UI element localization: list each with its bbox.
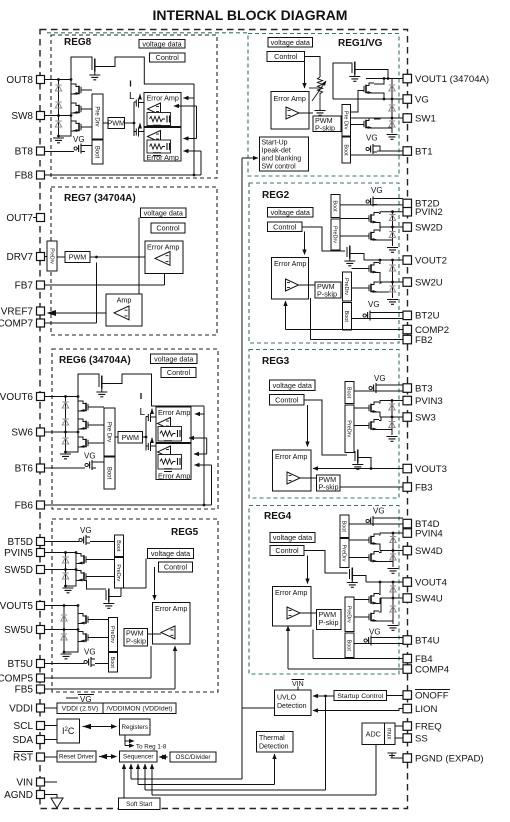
svg-text:mux: mux bbox=[386, 728, 392, 739]
svg-text:VOUT5: VOUT5 bbox=[0, 601, 33, 612]
wire SCL bbox=[45, 725, 58, 727]
REG3 switch FET 1 bbox=[371, 402, 379, 412]
REG7 block outline bbox=[51, 187, 217, 335]
wire F4 source to chain REG2 bbox=[379, 291, 393, 293]
REG3 cluster ground bbox=[387, 437, 398, 442]
pin SW2D bbox=[403, 223, 412, 232]
svg-text:PreDrv: PreDrv bbox=[109, 626, 115, 643]
wire pass FET to VOUT3 bbox=[370, 458, 371, 469]
pin PVIN2 bbox=[403, 208, 412, 217]
REG6 compensation network box upper bbox=[158, 427, 182, 442]
REG6 PWM box bbox=[118, 432, 143, 444]
svg-text:Control: Control bbox=[275, 395, 299, 404]
svg-text:PreDrv: PreDrv bbox=[346, 420, 352, 437]
pin RST bbox=[37, 753, 45, 761]
wire VG to pass FET bbox=[333, 63, 352, 99]
wire OUT7 tick bbox=[33, 217, 37, 219]
svg-text:VG: VG bbox=[80, 526, 92, 535]
svg-text:PVIN3: PVIN3 bbox=[415, 396, 443, 407]
REG7 error amp box bbox=[145, 241, 183, 274]
wire COMP5 bbox=[45, 677, 152, 679]
REG2 PWM box bbox=[315, 282, 341, 298]
wire feedback into lower EA REG6 bbox=[195, 464, 212, 466]
wire PWM to error amp bbox=[90, 256, 145, 258]
REG5 mid pass FET bbox=[105, 590, 107, 600]
wire to thermal detection bbox=[274, 754, 276, 785]
wire pass FET gnd stub REG2 bbox=[349, 259, 351, 261]
REG7 error amp A bbox=[155, 252, 170, 266]
wire PVIN4 bbox=[379, 533, 403, 535]
REG3 Boot strip bbox=[345, 382, 354, 404]
wire BT1 bbox=[377, 150, 403, 152]
svg-text:Startup Control: Startup Control bbox=[337, 693, 383, 700]
svg-text:PreDrv: PreDrv bbox=[48, 248, 54, 264]
svg-text:RST: RST bbox=[13, 753, 33, 764]
pin PVIN5 bbox=[37, 549, 45, 557]
REG2 VG clamp FET top bbox=[369, 197, 377, 207]
wire SW3 bbox=[380, 416, 403, 418]
wire VOUT4 bbox=[366, 581, 403, 583]
REG8 compensation network box upper bbox=[147, 113, 171, 126]
wire Boot to BT2D bbox=[340, 204, 403, 206]
svg-text:VG: VG bbox=[371, 186, 383, 195]
svg-text:voltage data: voltage data bbox=[273, 381, 312, 390]
svg-text:OSC/Divider: OSC/Divider bbox=[176, 754, 211, 761]
ADC box bbox=[362, 723, 385, 745]
REG5 body diode D2 bbox=[62, 573, 68, 579]
svg-text:VIN: VIN bbox=[16, 778, 33, 789]
pin VOUT2 bbox=[403, 256, 412, 264]
wire Control to error amp REG1 bbox=[304, 62, 306, 89]
REG2 upper cluster ground bbox=[387, 248, 398, 253]
REG6 Boot strip bbox=[104, 457, 115, 489]
wire PreDrv to F3 gate REG4 bbox=[354, 599, 369, 601]
svg-text:Start-Up: Start-Up bbox=[262, 140, 288, 147]
wire feedback into lower EA bbox=[184, 150, 202, 152]
pin BT1 bbox=[403, 147, 412, 156]
REG2 Boot strip lower bbox=[343, 303, 352, 331]
svg-text:OUT8: OUT8 bbox=[6, 75, 33, 86]
pin FB4 bbox=[403, 654, 412, 663]
svg-text:To Reg 1-8: To Reg 1-8 bbox=[136, 744, 167, 751]
wire clamp to BT1 bbox=[377, 146, 380, 151]
svg-text:Detection: Detection bbox=[259, 744, 289, 751]
REG5 PreDrv strip upper bbox=[115, 558, 124, 589]
REG5 lower cluster ground bbox=[61, 654, 72, 659]
pin VOUT1 (34704A) bbox=[403, 74, 412, 83]
REG8 PWM box bbox=[108, 118, 125, 129]
REG5 voltage data box bbox=[148, 549, 194, 559]
REG3 body diode D1 bbox=[389, 404, 395, 410]
wire PreDrv to F3 gate REG2 bbox=[352, 268, 370, 270]
wire SW2D bbox=[380, 226, 403, 228]
wire REG5 lower cluster bus bbox=[64, 606, 78, 653]
REG3 voltage data box bbox=[270, 380, 316, 391]
REG4 block outline bbox=[249, 506, 399, 675]
pin SW4U bbox=[403, 594, 412, 603]
wire FB2 up to PWM bbox=[310, 298, 312, 340]
REG6 extra cap upper bbox=[164, 441, 172, 444]
svg-text:Amp: Amp bbox=[117, 296, 132, 305]
wire F3 drain to VOUT4 bbox=[379, 582, 380, 595]
REG2 lower cluster ground bbox=[387, 300, 398, 305]
pin PVIN3 bbox=[403, 396, 412, 405]
PGND ground symbol bbox=[388, 753, 398, 758]
wire EA to PWM REG5 bbox=[148, 633, 162, 635]
pin SW8 bbox=[37, 112, 45, 120]
pin OUT8 bbox=[37, 76, 45, 84]
svg-text:BT2U: BT2U bbox=[415, 311, 440, 322]
wire COMP7 up to PWM bbox=[96, 263, 98, 324]
svg-text:VG: VG bbox=[374, 374, 386, 383]
inductor current mark bbox=[130, 81, 132, 87]
REG6 body diode D3 bbox=[62, 438, 68, 444]
svg-text:L: L bbox=[129, 91, 135, 102]
pin COMP7 bbox=[37, 319, 45, 327]
REG2 body diode D1 bbox=[389, 215, 395, 221]
pin ONOFF bbox=[403, 691, 412, 700]
wire seq out 2 bbox=[137, 764, 139, 785]
wire half-bridge loop bbox=[133, 102, 135, 136]
svg-text:P-skip: P-skip bbox=[315, 124, 335, 133]
pin FB3 bbox=[403, 483, 412, 492]
wire SDA bbox=[45, 739, 58, 741]
wire I2C-Registers bus bbox=[83, 726, 117, 728]
svg-text:BT8: BT8 bbox=[15, 147, 34, 158]
wire seq out 4 bbox=[151, 764, 153, 795]
wire clamp FET to Boot bbox=[85, 145, 92, 147]
pin PVIN4 bbox=[403, 529, 412, 538]
wire pass FET drain REG5 bbox=[121, 588, 146, 597]
wire Boot to BT1 bbox=[351, 154, 404, 156]
svg-text:PreDrv: PreDrv bbox=[341, 544, 347, 561]
svg-text:VG: VG bbox=[84, 452, 96, 461]
svg-text:Error Amp: Error Amp bbox=[155, 604, 187, 613]
wire pass FET gnd stub REG3 bbox=[357, 463, 359, 465]
REG2 switch FET L2 bbox=[371, 282, 379, 292]
wire REG5 upper cluster bus bbox=[66, 553, 77, 587]
svg-text:SW3: SW3 bbox=[415, 412, 436, 423]
svg-text:Error Amp: Error Amp bbox=[147, 153, 179, 162]
REG3 switch FET 2 bbox=[371, 420, 379, 430]
svg-text:VG: VG bbox=[369, 628, 381, 637]
svg-text:SW4D: SW4D bbox=[415, 546, 443, 557]
wire F1 drain to VOUT1 bbox=[374, 79, 384, 85]
svg-text:SW control: SW control bbox=[262, 164, 297, 171]
svg-text:REG7 (34704A): REG7 (34704A) bbox=[64, 193, 136, 204]
pin SW5D bbox=[37, 566, 45, 574]
wire F2 drain to SW3 bbox=[379, 417, 381, 421]
REG4 PreDrv strip upper bbox=[340, 539, 349, 568]
REG6 top pass FET bbox=[98, 377, 100, 387]
svg-text:Boot: Boot bbox=[109, 657, 115, 669]
wire FB7 up to EA bbox=[164, 274, 166, 286]
wire REG6 pass FET source bbox=[78, 374, 99, 397]
svg-text:Pre Drv: Pre Drv bbox=[93, 106, 99, 126]
REG6 body diode D1 bbox=[62, 402, 68, 408]
pin BT4U bbox=[403, 636, 412, 645]
REG5 error amp box bbox=[153, 603, 191, 645]
REG8 body diode D3 bbox=[55, 121, 61, 127]
spine wire x242 bbox=[241, 158, 243, 779]
REG4 switch FET U2 bbox=[371, 552, 379, 562]
REG3 block outline bbox=[249, 350, 399, 499]
REG5 block outline bbox=[52, 519, 218, 692]
REG2 switch FET U1 bbox=[371, 213, 379, 223]
wire REG2 diode chain upper bbox=[392, 212, 394, 246]
REG6 VG clamp FET bbox=[88, 460, 96, 470]
svg-text:SW2U: SW2U bbox=[415, 277, 443, 288]
wire REG8 diode chain bus bbox=[58, 80, 60, 137]
svg-text:Error Amp: Error Amp bbox=[275, 588, 307, 597]
REG7 PreDrv strip bbox=[47, 241, 57, 271]
REG1 Control box bbox=[267, 52, 305, 62]
svg-text:P-skip: P-skip bbox=[126, 637, 146, 646]
REG4 mid pass FET bbox=[349, 569, 351, 579]
Reset Driver box bbox=[57, 751, 96, 762]
wire F2 source to ground chain bbox=[379, 239, 393, 241]
REG6 compensation network box lower bbox=[158, 455, 182, 470]
wire Startup to UVLO bbox=[313, 695, 334, 697]
I2C box bbox=[57, 719, 80, 743]
REG2 body diode D3 bbox=[389, 265, 395, 271]
pin BT2U bbox=[403, 311, 412, 320]
svg-text:ONOFF: ONOFF bbox=[415, 690, 449, 701]
wire REG4 diode chain lower bbox=[392, 582, 394, 624]
svg-text:Boot: Boot bbox=[342, 144, 348, 156]
wire VOUT5 bbox=[45, 605, 79, 607]
wire SW5D bbox=[45, 569, 77, 571]
REG1 diode ground bbox=[387, 135, 398, 140]
wire clamp to BT2D bbox=[377, 198, 403, 200]
REG6 body diode D2 bbox=[62, 419, 68, 425]
REG6 power FET Q2 bbox=[78, 419, 86, 429]
svg-text:Boot: Boot bbox=[346, 387, 352, 399]
wire REG8 pass FET to error amp ref bbox=[107, 57, 194, 84]
svg-text:PVIN2: PVIN2 bbox=[415, 207, 443, 218]
REG3 VG clamp FET bbox=[372, 383, 380, 393]
svg-text:Reset Driver: Reset Driver bbox=[59, 754, 94, 761]
svg-text:REG4: REG4 bbox=[264, 511, 292, 522]
REG8 extra cap upper bbox=[153, 125, 161, 128]
wire REG4 diode chain upper bbox=[392, 533, 394, 567]
REG7 PWM box bbox=[65, 252, 90, 263]
svg-text:SW6: SW6 bbox=[11, 428, 33, 439]
REG6 bridge FET upper bbox=[146, 410, 156, 423]
wire PreDrv to F1 gate bbox=[351, 91, 365, 113]
wire pass FET to ground REG6 bbox=[101, 389, 103, 392]
svg-text:L: L bbox=[140, 407, 146, 418]
REG8 cluster ground bbox=[53, 138, 64, 143]
svg-text:BT5D: BT5D bbox=[7, 537, 33, 548]
svg-text:Ipeak-det: Ipeak-det bbox=[262, 148, 291, 155]
wire EA to PWM REG3 bbox=[300, 477, 317, 479]
svg-text:Error Amp: Error Amp bbox=[158, 408, 190, 417]
wire Registers to sequencer bbox=[124, 735, 126, 746]
pin FB8 bbox=[37, 171, 45, 179]
REG8 PreDrv strip bbox=[92, 94, 103, 139]
pin VG bbox=[403, 95, 412, 104]
REG6 voltage data box bbox=[151, 354, 198, 364]
REG8 error amp A lower bbox=[148, 131, 161, 143]
svg-text:COMP5: COMP5 bbox=[0, 674, 33, 685]
wire to startup line bbox=[325, 696, 327, 790]
svg-text:PreDrv: PreDrv bbox=[343, 278, 349, 295]
wire PreDrv to F2 gate REG3 bbox=[354, 425, 369, 427]
wire REG6 cluster bus bbox=[66, 397, 79, 453]
REG1 ground under pass FET bbox=[349, 77, 360, 82]
wire FB3 bbox=[340, 486, 403, 488]
svg-text:Control: Control bbox=[156, 224, 180, 233]
pin BT5D bbox=[37, 538, 45, 546]
pin SW2U bbox=[403, 278, 412, 287]
wire F2 source to chain REG3 bbox=[379, 429, 392, 431]
wire F1 source to SW3 bbox=[379, 412, 380, 417]
svg-text:SW2D: SW2D bbox=[415, 222, 443, 233]
wire SW4U bbox=[380, 597, 403, 599]
pin FB6 bbox=[37, 501, 45, 509]
wire clamp to BT2U bbox=[374, 312, 403, 314]
svg-text:REG2: REG2 bbox=[262, 190, 290, 201]
svg-text:P-skip: P-skip bbox=[319, 483, 339, 492]
wire FB5 into error amp bbox=[174, 646, 176, 689]
svg-text:Error Amp: Error Amp bbox=[275, 452, 307, 461]
wire strip to PWM bbox=[103, 122, 108, 124]
wire FB2 bbox=[311, 339, 404, 341]
svg-text:VG: VG bbox=[373, 507, 385, 516]
svg-text:Pre Drv: Pre Drv bbox=[342, 111, 348, 130]
pin SW5U bbox=[37, 626, 45, 634]
wire PreDrv to F2 gate REG4 bbox=[349, 557, 369, 559]
svg-text:Boot: Boot bbox=[332, 200, 338, 212]
wire Control to error amp REG4 bbox=[307, 556, 309, 584]
svg-text:ADC: ADC bbox=[366, 729, 381, 738]
wire COMP5 up bbox=[150, 646, 152, 678]
REG4 switch FET L2 bbox=[371, 611, 379, 621]
bus wire y779 bbox=[131, 778, 242, 780]
REG1 resistor ground bbox=[315, 111, 326, 116]
REG1 voltage data box bbox=[268, 38, 313, 48]
wire COMP4 bbox=[288, 668, 403, 670]
svg-text:Boot: Boot bbox=[343, 311, 349, 323]
wire clamp to BT4D bbox=[377, 517, 403, 519]
svg-text:BT5U: BT5U bbox=[7, 659, 33, 670]
REG8 voltage data box bbox=[139, 40, 185, 49]
svg-text:Boot: Boot bbox=[93, 146, 99, 159]
wire Boot to BT4D bbox=[349, 523, 403, 525]
wire PWM out bbox=[125, 122, 135, 124]
wire feedback bracket REG6 bbox=[206, 438, 208, 454]
svg-text:VOUT4: VOUT4 bbox=[415, 577, 448, 588]
wire feedback vertical REG6 bbox=[203, 406, 205, 505]
REG1 PreDrv strip bbox=[342, 105, 351, 137]
pin BT8 bbox=[37, 147, 45, 155]
svg-text:VOUT1 (34704A): VOUT1 (34704A) bbox=[415, 74, 489, 85]
REG8 bridge FET lower bbox=[134, 124, 144, 137]
wire Soft Start to sequencer bbox=[123, 764, 125, 798]
wire FB5 bbox=[45, 688, 176, 690]
wire VOUT3 into error amp bbox=[313, 468, 403, 470]
pin VREF7 bbox=[37, 307, 45, 315]
wire SW1 bbox=[351, 117, 404, 119]
pin COMP4 bbox=[403, 665, 412, 674]
REG4 PWM box bbox=[317, 610, 342, 630]
wire strip to PWM REG6 bbox=[115, 436, 118, 438]
wire F1 source to VG bbox=[374, 93, 384, 99]
svg-text:voltage data: voltage data bbox=[273, 533, 312, 542]
REG1 top pass FET bbox=[351, 63, 353, 73]
wire PVIN3 bbox=[379, 401, 403, 404]
svg-text:SDA: SDA bbox=[12, 735, 33, 746]
pin BT6 bbox=[37, 464, 45, 472]
wire VOUT2 bbox=[364, 259, 403, 261]
wire F2 drain to SW1 bbox=[374, 118, 380, 119]
svg-text:FB6: FB6 bbox=[15, 501, 34, 512]
svg-text:Error Amp: Error Amp bbox=[147, 94, 179, 103]
pin FB2 bbox=[403, 335, 412, 344]
REG8 block outline bbox=[51, 35, 217, 178]
wire feedback into upper EA bbox=[184, 97, 195, 99]
wire PVIN2 bbox=[379, 212, 403, 214]
svg-text:VDDI: VDDI bbox=[9, 704, 33, 715]
svg-text:VG: VG bbox=[84, 648, 96, 657]
svg-text:BT6: BT6 bbox=[15, 464, 34, 475]
REG4 VG clamp FET lower bbox=[367, 636, 375, 646]
wire EA to PWM REG4 bbox=[300, 612, 317, 614]
pin BT5U bbox=[37, 660, 45, 668]
wire PreDrv to F4 gate REG2 bbox=[352, 287, 370, 289]
wire VREF7 out bbox=[48, 312, 106, 314]
REG6 error amp A lower bbox=[158, 446, 171, 458]
svg-text:INTERNAL BLOCK DIAGRAM: INTERNAL BLOCK DIAGRAM bbox=[153, 7, 348, 23]
REG6 error amp lower box bbox=[156, 444, 191, 480]
svg-text:voltage data: voltage data bbox=[151, 549, 190, 558]
wire ONOFF bbox=[387, 695, 404, 697]
REG3 error amp box bbox=[273, 450, 312, 491]
wire DRV7 bbox=[45, 256, 48, 258]
REG5 ground by pass FET bbox=[103, 604, 114, 609]
svg-text:Detection: Detection bbox=[277, 703, 307, 710]
wire pass FET gnd stub REG5 bbox=[108, 602, 110, 604]
wire SW8 to cluster bbox=[45, 115, 72, 117]
svg-text:FB2: FB2 bbox=[415, 335, 433, 346]
chip outer dashed border bbox=[40, 30, 408, 809]
REG1 Boot strip bbox=[342, 137, 351, 163]
svg-text:SW4U: SW4U bbox=[415, 593, 443, 604]
REG8 body diode D2 bbox=[55, 102, 61, 108]
REG1 PWM box bbox=[313, 116, 341, 132]
svg-text:Control: Control bbox=[273, 222, 297, 231]
wire REG5 diode bus lower bbox=[63, 606, 65, 653]
pin VIN bbox=[37, 778, 45, 786]
wire pass FET to ground bbox=[94, 72, 96, 75]
wire PreDrv to F1 gate REG3 bbox=[354, 407, 369, 409]
OSC divider box bbox=[170, 752, 216, 762]
REG3 Control box bbox=[270, 395, 305, 406]
REG2 ground under pass FET bbox=[344, 261, 355, 266]
svg-text:AGND: AGND bbox=[4, 790, 33, 801]
REG8 error amp lower box bbox=[144, 128, 181, 162]
wire REG6 diode chain bus bbox=[65, 397, 67, 453]
svg-text:SW5D: SW5D bbox=[4, 565, 33, 576]
wire SW6 to cluster bbox=[45, 431, 79, 433]
wire Boot to BT2U bbox=[352, 318, 404, 320]
wire REG3 diode chain bbox=[391, 401, 393, 436]
svg-text:Control: Control bbox=[275, 546, 299, 555]
REG4 body diode D2 bbox=[390, 554, 396, 560]
REG8 top pass FET bbox=[91, 60, 93, 70]
REG4 PreDrv strip lower bbox=[345, 597, 354, 632]
